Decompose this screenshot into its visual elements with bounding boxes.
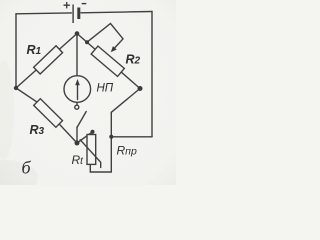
- wire: Rt top lead: [92, 132, 94, 135]
- resistor R3: [34, 99, 63, 128]
- wire: right border down: [151, 12, 153, 137]
- svg-text:R1: R1: [27, 43, 42, 57]
- node: Rnp junction: [109, 135, 113, 139]
- wire: bottom-right horizontal to junction: [111, 136, 152, 138]
- svg-text:R3: R3: [30, 123, 45, 137]
- node: top vertex: [75, 31, 80, 36]
- switch SA lever: [77, 112, 86, 128]
- wire: bridge edge left-bottom (R3 arm): [16, 88, 77, 143]
- wire: bottom horizontal to Rt: [90, 164, 111, 172]
- wire: Rnp vertical segment: [110, 112, 112, 172]
- wire: switch to bottom vertex: [76, 127, 78, 143]
- resistor R1: [34, 46, 63, 74]
- null indicator NP circle: [64, 76, 91, 103]
- NP arrow shaft: [77, 83, 79, 100]
- node: bottom vertex: [75, 141, 80, 146]
- svg-text:Rпр: Rпр: [117, 144, 137, 158]
- thermistor Rt strike line with bent foot: [80, 140, 101, 168]
- node: left vertex: [14, 86, 18, 90]
- svg-text:б: б: [22, 158, 32, 178]
- node: right vertex: [138, 86, 143, 91]
- paper background: [0, 0, 176, 185]
- resistor R2: [91, 46, 124, 76]
- wire: bridge edge left-top (R1 arm): [16, 34, 77, 89]
- node: Rt top: [91, 130, 95, 134]
- plus sign: [64, 2, 70, 8]
- R2 slider arrowhead: [111, 46, 117, 52]
- wire: bridge edge top-right (R2 arm): [77, 34, 140, 89]
- wire: diagonal from right vertex to Rnp bend: [111, 89, 140, 113]
- battery B1: [64, 2, 87, 23]
- wire: bottom vertex to Rt top: [77, 132, 93, 143]
- thermistor Rt body: [87, 135, 96, 165]
- svg-text:R2: R2: [126, 53, 141, 67]
- svg-text:НП: НП: [97, 83, 114, 95]
- battery positive plate (long): [72, 5, 73, 24]
- wire: top right from battery to corner: [81, 12, 152, 13]
- scan vignette: [0, 0, 176, 185]
- R2 slider loop wire: [87, 24, 123, 49]
- NP arrowhead: [75, 79, 80, 85]
- wire: galvanometer bottom lead: [76, 102, 78, 105]
- svg-text:Rt: Rt: [72, 153, 85, 167]
- wire: galvanometer top lead: [76, 34, 78, 77]
- switch terminal circle: [75, 105, 79, 109]
- wire: top left from corner to battery: [16, 12, 72, 15]
- wire: left border down to left bridge vertex: [15, 14, 17, 88]
- node: T2 junction: [85, 40, 89, 44]
- minus sign: [82, 3, 87, 5]
- battery negative plate (short thick): [77, 8, 80, 20]
